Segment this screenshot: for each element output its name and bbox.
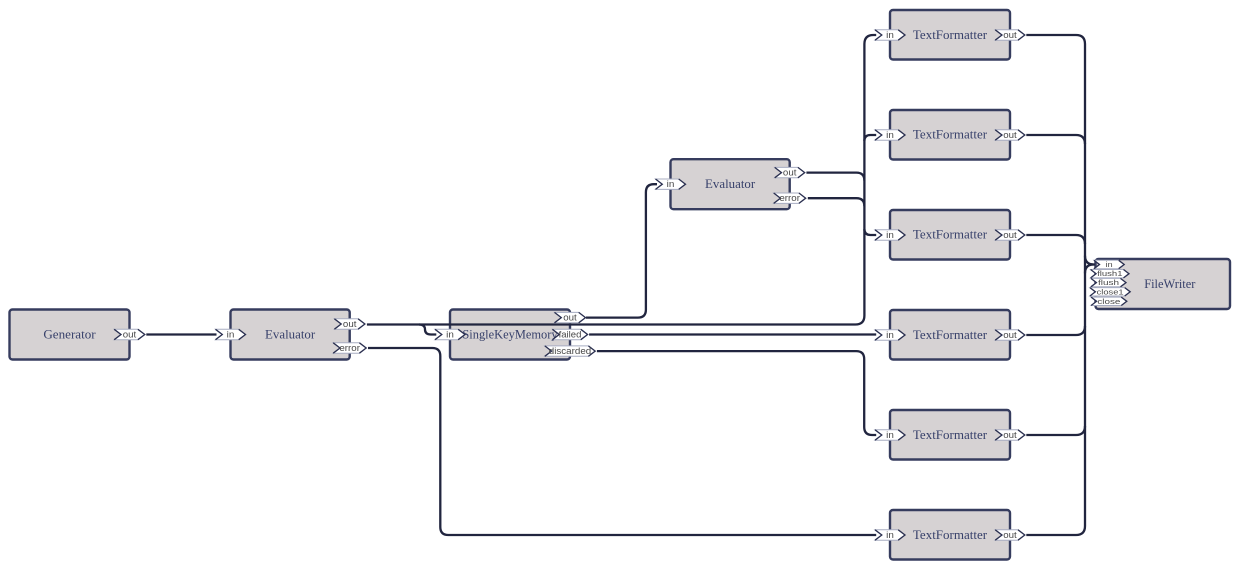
wire TextFormatter5.out -> right trunk <box>1026 426 1085 435</box>
wire Evaluator2.out -> trunk <box>806 173 864 181</box>
svg-text:out: out <box>783 168 797 178</box>
svg-text:in: in <box>886 30 894 40</box>
svg-text:out: out <box>123 330 137 340</box>
wire SingleKeyMemory.out -> Evaluator2.in <box>586 184 657 317</box>
port SingleKeyMemory.out <box>555 312 586 322</box>
port TextFormatter6.in <box>875 530 905 540</box>
svg-text:out: out <box>1003 430 1017 440</box>
svg-text:failed: failed <box>559 330 582 340</box>
port TextFormatter6.out <box>995 530 1025 540</box>
svg-text:close1: close1 <box>1097 287 1124 296</box>
block TextFormatter T3 <box>890 210 1010 260</box>
svg-text:FileWriter: FileWriter <box>1144 276 1196 291</box>
svg-text:in: in <box>886 530 894 540</box>
wire Evaluator2.error -> trunk <box>808 198 865 206</box>
svg-text:Generator: Generator <box>43 327 96 342</box>
svg-text:flush1: flush1 <box>1097 269 1122 278</box>
svg-text:out: out <box>1003 330 1017 340</box>
svg-text:TextFormatter: TextFormatter <box>913 227 988 242</box>
block TextFormatter T2 <box>890 110 1010 160</box>
svg-text:out: out <box>1003 230 1017 240</box>
wire SingleKeyMemory.failed -> TextFormatter4.in <box>589 333 876 335</box>
svg-text:Evaluator: Evaluator <box>265 327 316 342</box>
port TextFormatter4.in <box>875 330 905 340</box>
svg-text:in: in <box>886 330 894 340</box>
port Generator.out <box>114 329 145 339</box>
svg-text:Evaluator: Evaluator <box>705 176 756 191</box>
port FileWriter.in <box>1094 260 1124 269</box>
block TextFormatter T5 <box>890 410 1010 460</box>
port SingleKeyMemory.discarded <box>545 346 595 356</box>
wire TextFormatter1.out / TextFormatter6.out right trunk x1085 <box>1026 35 1085 535</box>
svg-text:out: out <box>563 313 577 323</box>
port TextFormatter2.out <box>995 130 1025 140</box>
port TextFormatter2.in <box>875 130 905 140</box>
block TextFormatter T4 <box>890 310 1010 360</box>
wire branch trunk -> TextFormatter3.in <box>864 229 876 235</box>
svg-text:in: in <box>667 179 675 189</box>
svg-text:discarded: discarded <box>549 346 591 356</box>
wire branch Evaluator1.out -> SingleKeyMemory.in (S-bend) <box>419 325 436 335</box>
port TextFormatter1.in <box>875 30 905 40</box>
block SingleKeyMemory <box>450 310 570 360</box>
svg-text:in: in <box>227 330 235 340</box>
port SingleKeyMemory.in <box>435 329 465 339</box>
wire Evaluator1.out -> TextFormatter1.in (trunk via vertical x864) <box>367 35 876 325</box>
port FileWriter.close <box>1091 297 1127 306</box>
wire branch trunk -> TextFormatter2.in <box>864 135 876 141</box>
port Evaluator1.out <box>334 319 365 329</box>
svg-text:TextFormatter: TextFormatter <box>913 127 988 142</box>
port SingleKeyMemory.failed <box>552 329 587 339</box>
port TextFormatter5.in <box>875 430 905 440</box>
block Evaluator U1 <box>231 310 350 360</box>
svg-text:out: out <box>1003 530 1017 540</box>
block FileWriter <box>1096 259 1231 309</box>
port FileWriter.flush <box>1091 278 1126 287</box>
port FileWriter.flush1 <box>1091 269 1129 278</box>
port Evaluator2.error <box>774 193 806 203</box>
svg-text:TextFormatter: TextFormatter <box>913 327 988 342</box>
port Evaluator1.error <box>333 343 366 353</box>
block TextFormatter T6 <box>890 510 1010 560</box>
wire TextFormatter3.out -> right trunk <box>1026 235 1085 244</box>
svg-text:out: out <box>1003 30 1017 40</box>
port TextFormatter1.out <box>995 30 1025 40</box>
port TextFormatter5.out <box>995 430 1025 440</box>
port TextFormatter3.out <box>995 230 1025 240</box>
svg-text:in: in <box>886 130 894 140</box>
port Evaluator2.out <box>775 167 805 177</box>
wire SingleKeyMemory.discarded -> TextFormatter5.in <box>597 351 876 435</box>
svg-text:in: in <box>446 330 454 340</box>
block Generator <box>10 310 130 360</box>
svg-text:error: error <box>779 193 800 203</box>
svg-text:out: out <box>343 319 357 329</box>
port Evaluator2.in <box>656 179 686 189</box>
svg-text:flush: flush <box>1098 278 1119 287</box>
port TextFormatter3.in <box>875 230 905 240</box>
svg-text:close: close <box>1097 297 1120 306</box>
svg-text:TextFormatter: TextFormatter <box>913 27 988 42</box>
svg-text:out: out <box>1003 130 1017 140</box>
wire Evaluator1.error -> TextFormatter6.in <box>368 348 876 535</box>
svg-text:SingleKeyMemory: SingleKeyMemory <box>462 327 558 342</box>
wire right trunk -> FileWriter.in (upper elbow) <box>1085 256 1095 265</box>
wire TextFormatter2.out -> right trunk <box>1026 135 1085 144</box>
port FileWriter.close1 <box>1090 287 1130 296</box>
wire right trunk -> FileWriter.in (lower elbow) <box>1085 265 1094 274</box>
wire TextFormatter4.out -> right trunk <box>1026 326 1085 335</box>
block TextFormatter T1 <box>890 10 1010 60</box>
block Evaluator U2 <box>671 159 790 209</box>
svg-text:in: in <box>1106 260 1113 269</box>
svg-text:in: in <box>886 430 894 440</box>
port Evaluator1.in <box>216 329 246 339</box>
wire Generator.out -> Evaluator1.in <box>146 333 216 335</box>
svg-text:in: in <box>886 230 894 240</box>
port TextFormatter4.out <box>995 330 1025 340</box>
svg-text:TextFormatter: TextFormatter <box>913 527 988 542</box>
svg-text:TextFormatter: TextFormatter <box>913 427 988 442</box>
svg-text:error: error <box>339 343 360 353</box>
